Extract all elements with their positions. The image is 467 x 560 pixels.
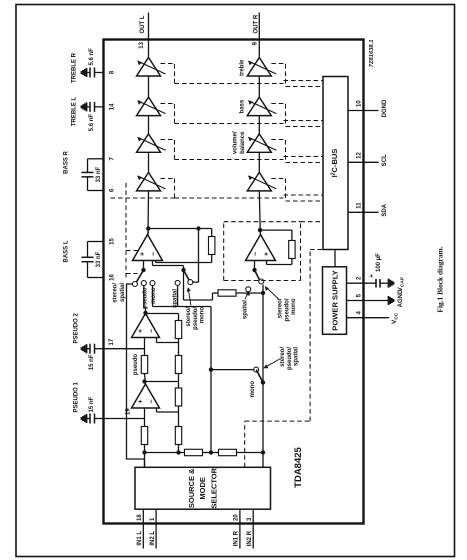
svg-text:volume/: volume/	[232, 131, 238, 154]
svg-text:17: 17	[109, 338, 115, 345]
svg-text:−: −	[148, 328, 155, 332]
svg-text:mono: mono	[199, 306, 205, 323]
svg-text:mono: mono	[151, 287, 157, 304]
svg-text:5: 5	[356, 293, 362, 297]
svg-text:SELECTOR: SELECTOR	[209, 467, 218, 508]
svg-text:7: 7	[109, 156, 115, 160]
svg-text:spatial: spatial	[172, 288, 178, 307]
svg-text:14: 14	[109, 102, 115, 109]
svg-text:SDA: SDA	[382, 203, 388, 216]
svg-text:+: +	[368, 273, 375, 277]
svg-text:TREBLE R: TREBLE R	[71, 52, 77, 83]
svg-text:DGND: DGND	[382, 99, 388, 117]
svg-text:Fig.1 Block diagram.: Fig.1 Block diagram.	[435, 246, 444, 312]
svg-text:IN1 R: IN1 R	[233, 530, 239, 546]
svg-text:stereo/: stereo/	[112, 282, 118, 302]
svg-text:bass: bass	[239, 99, 245, 113]
svg-text:5.6 nF: 5.6 nF	[88, 113, 94, 131]
svg-text:7Z81638.1: 7Z81638.1	[369, 39, 375, 67]
svg-text:+: +	[263, 251, 270, 255]
svg-text:100 µF: 100 µF	[376, 252, 382, 271]
svg-text:spatial: spatial	[293, 346, 299, 365]
svg-text:stereo/: stereo/	[277, 298, 283, 318]
svg-text:PSEUDO 1: PSEUDO 1	[73, 381, 79, 412]
svg-text:18: 18	[137, 513, 143, 520]
svg-text:BASS R: BASS R	[63, 150, 69, 173]
svg-text:pseudo: pseudo	[133, 353, 139, 375]
svg-text:+: +	[137, 328, 144, 332]
svg-text:−: −	[252, 251, 259, 255]
svg-text:TDA8425: TDA8425	[293, 446, 304, 487]
svg-text:MODE: MODE	[198, 477, 207, 500]
svg-text:13: 13	[139, 41, 145, 48]
svg-text:IN1 L: IN1 L	[137, 530, 143, 545]
svg-text:mono: mono	[250, 380, 256, 397]
svg-text:9: 9	[252, 41, 258, 45]
svg-text:pseudo/: pseudo/	[192, 306, 198, 329]
svg-text:IN2 L: IN2 L	[149, 530, 155, 545]
svg-text:6: 6	[109, 188, 115, 192]
svg-text:8: 8	[109, 70, 115, 74]
svg-text:TREBLE L: TREBLE L	[71, 96, 77, 126]
svg-text:+: +	[137, 399, 144, 403]
svg-text:11: 11	[356, 201, 362, 208]
svg-text:SOURCE &: SOURCE &	[187, 467, 196, 507]
svg-text:spatial: spatial	[120, 282, 126, 301]
svg-text:POWER SUPPLY: POWER SUPPLY	[330, 270, 339, 330]
svg-text:1: 1	[149, 517, 155, 521]
svg-text:IN2 R: IN2 R	[247, 530, 253, 546]
svg-text:+: +	[139, 251, 146, 255]
svg-text:balance: balance	[240, 130, 246, 153]
svg-text:BASS L: BASS L	[63, 240, 69, 262]
svg-text:stereo/: stereo/	[280, 346, 286, 366]
svg-text:pseudo/: pseudo/	[286, 346, 292, 369]
svg-text:2: 2	[356, 276, 362, 280]
svg-text:SCL: SCL	[382, 153, 388, 165]
svg-text:16: 16	[109, 273, 115, 280]
svg-text:pseudo/: pseudo/	[284, 298, 290, 321]
svg-text:33 nF: 33 nF	[96, 166, 102, 182]
svg-text:AGND: AGND	[398, 289, 404, 307]
svg-text:mono: mono	[291, 298, 297, 315]
svg-text:OUT R: OUT R	[253, 14, 259, 33]
svg-text:15 nF: 15 nF	[88, 354, 94, 370]
svg-text:−: −	[150, 251, 157, 255]
svg-text:pseudo: pseudo	[142, 287, 148, 309]
svg-text:15: 15	[109, 237, 115, 244]
svg-text:5.6 nF: 5.6 nF	[88, 47, 94, 65]
svg-text:−: −	[148, 399, 155, 403]
svg-text:PSEUDO 2: PSEUDO 2	[73, 312, 79, 343]
svg-text:33 nF: 33 nF	[96, 251, 102, 267]
svg-text:4: 4	[356, 310, 362, 314]
svg-text:spatial: spatial	[242, 299, 248, 318]
svg-text:15 nF: 15 nF	[88, 396, 94, 412]
svg-text:12: 12	[356, 151, 362, 158]
svg-text:20: 20	[233, 513, 239, 520]
svg-text:OUT L: OUT L	[140, 15, 146, 33]
svg-text:treble: treble	[239, 58, 245, 75]
svg-text:3: 3	[247, 517, 253, 521]
svg-text:stereo/: stereo/	[186, 306, 192, 326]
svg-text:10: 10	[356, 99, 362, 106]
